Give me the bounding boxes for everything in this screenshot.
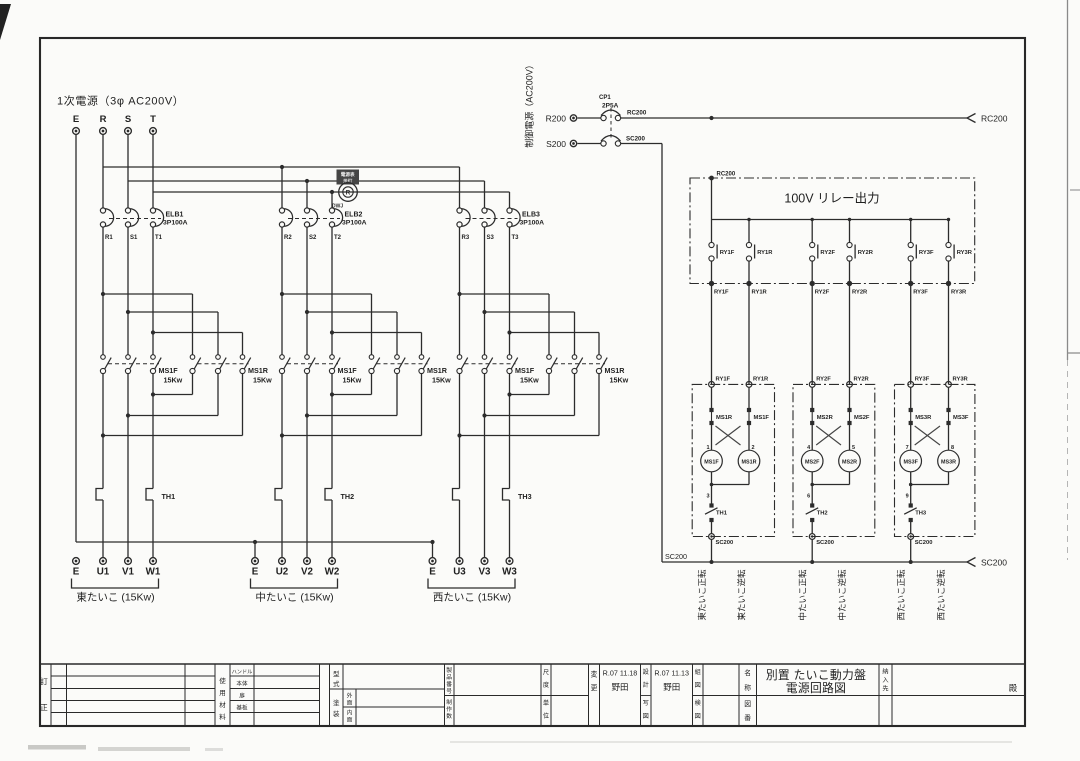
svg-text:S3: S3	[487, 235, 495, 241]
wire circuit1 U output	[102, 374, 104, 489]
svg-text:MS3R: MS3R	[941, 459, 956, 465]
bracket load group 3	[428, 579, 515, 589]
wire contact RY2R to box edge	[849, 261, 851, 283]
wire box1 coil MS1R return	[748, 472, 750, 485]
wire contact RY3F to box edge	[910, 261, 912, 283]
breaker ELB3 3P100A	[457, 208, 462, 213]
svg-text:料: 料	[219, 712, 226, 721]
wire ELB1 output x=103	[102, 227, 104, 355]
node circuit3 W junction	[507, 392, 511, 396]
wire circuit1 W output	[152, 374, 154, 489]
svg-text:MS1R: MS1R	[742, 459, 757, 465]
svg-text:変: 変	[591, 670, 598, 679]
wire ELB3 feed drop x=459.5	[459, 167, 461, 208]
node R bus tap ELB2	[280, 165, 284, 169]
node box terminal RY3R	[946, 281, 951, 286]
relay contact RY2F	[810, 242, 815, 247]
wire box3 left branch lower	[910, 472, 912, 504]
terminal E input	[73, 128, 80, 135]
wire drop to contact RY3F	[910, 220, 912, 243]
svg-text:扉: 扉	[239, 692, 245, 700]
svg-text:1次電源（3φ AC200V）: 1次電源（3φ AC200V）	[57, 94, 184, 108]
svg-text:T: T	[150, 114, 156, 125]
node RC200 relay feed tap	[709, 116, 713, 120]
svg-text:T3: T3	[512, 235, 520, 241]
svg-text:RY3F: RY3F	[919, 250, 934, 256]
svg-text:野田: 野田	[611, 682, 628, 692]
svg-text:野田: 野田	[663, 682, 680, 692]
svg-text:RY1R: RY1R	[757, 250, 773, 256]
wire circuit3 R to reverse pole1	[460, 293, 550, 295]
svg-text:SC200: SC200	[626, 136, 645, 143]
svg-text:SC200: SC200	[816, 540, 834, 546]
svg-text:RY2R: RY2R	[852, 290, 868, 296]
box1 terminal RY1F	[709, 382, 715, 388]
contactor MS1R contacts	[369, 355, 374, 360]
coil MS3F	[900, 450, 922, 472]
svg-text:TH3: TH3	[518, 492, 532, 501]
svg-text:E: E	[73, 567, 80, 578]
thermal contact TH1	[709, 503, 713, 507]
svg-text:計: 計	[643, 681, 649, 689]
svg-text:電源回路図: 電源回路図	[786, 681, 847, 695]
output terminal E	[429, 558, 436, 565]
svg-text:図: 図	[744, 700, 751, 708]
svg-text:MS1F: MS1F	[754, 415, 770, 421]
svg-text:基板: 基板	[236, 704, 248, 712]
node earth tap circuit3	[430, 540, 434, 544]
svg-text:E: E	[252, 567, 259, 578]
svg-text:使: 使	[219, 676, 226, 685]
node T bus tap ELB2	[330, 190, 334, 194]
svg-text:R: R	[100, 114, 107, 125]
wire RY3R to starter box	[948, 284, 950, 385]
node SC200 bus junction box2	[810, 560, 814, 564]
svg-text:SC200: SC200	[915, 540, 933, 546]
wire box3 coil MS3R return	[948, 472, 950, 485]
svg-text:用: 用	[219, 689, 226, 697]
svg-text:尺: 尺	[543, 670, 549, 677]
svg-text:TH3: TH3	[915, 511, 927, 517]
coil MS2R	[839, 450, 861, 472]
bracket load group 1	[72, 579, 159, 589]
wire relay feed header	[712, 219, 949, 221]
wire drop to contact RY1F	[711, 220, 713, 243]
contactor MS1F contacts	[457, 355, 462, 360]
svg-text:3P100A: 3P100A	[520, 220, 545, 227]
arrow RC200 out	[967, 114, 976, 123]
wire circuit3 V output	[484, 374, 486, 558]
svg-text:MS3F: MS3F	[904, 459, 919, 465]
svg-text:RY3R: RY3R	[951, 290, 967, 296]
svg-text:RY1R: RY1R	[753, 377, 769, 383]
output terminal V3	[481, 558, 488, 565]
wire box1 right branch upper	[748, 387, 750, 408]
box3 terminal RY3F	[908, 382, 914, 388]
wire RY2R to starter box	[849, 284, 851, 385]
wire box1 to SC200 terminal	[711, 522, 713, 534]
svg-text:15Kw: 15Kw	[610, 376, 629, 385]
mechanical interlock cross box3	[915, 426, 940, 445]
relay contact RY3R	[946, 242, 951, 247]
node circuit1 V junction	[126, 413, 130, 417]
coil MS2F	[801, 450, 823, 472]
svg-text:3P100A: 3P100A	[163, 220, 188, 227]
svg-text:R.07 11.13: R.07 11.13	[654, 669, 689, 678]
svg-text:S1: S1	[130, 235, 138, 241]
wire S-phase bus	[128, 180, 485, 182]
svg-text:材: 材	[219, 700, 226, 709]
terminal R200	[570, 115, 576, 121]
wire drop to contact RY2R	[849, 220, 851, 243]
thermal contact TH2	[810, 503, 814, 507]
svg-text:MS3R: MS3R	[915, 415, 932, 421]
mechanical interlock cross box1	[716, 426, 741, 445]
wire ELB2 feed drop x=307	[306, 181, 308, 208]
svg-text:ハンドル: ハンドル	[232, 670, 253, 676]
box2 terminal RY2R	[847, 382, 853, 388]
breaker ELB2 3P100A	[279, 208, 284, 213]
svg-text:R3: R3	[462, 235, 470, 241]
svg-text:RY1F: RY1F	[716, 377, 731, 383]
contactor MS1F contacts	[101, 355, 106, 360]
wire box1 left branch mid	[711, 423, 713, 450]
svg-text:R1: R1	[105, 235, 113, 241]
svg-text:TH1: TH1	[716, 511, 728, 517]
svg-text:U1: U1	[97, 567, 110, 578]
svg-text:納: 納	[882, 668, 888, 676]
arrow SC200 out	[967, 558, 976, 567]
svg-text:制: 制	[446, 698, 452, 706]
node circuit2 S tap	[305, 310, 309, 314]
svg-text:MS1F: MS1F	[338, 366, 358, 375]
wire ELB3 output x=509.5	[509, 227, 511, 355]
svg-text:15Kw: 15Kw	[520, 376, 539, 385]
svg-text:MS1F: MS1F	[515, 366, 535, 375]
svg-text:E: E	[73, 114, 79, 125]
svg-text:検: 検	[695, 699, 702, 707]
svg-text:MS1R: MS1R	[605, 366, 626, 375]
output terminal E	[73, 558, 80, 565]
svg-text:制御電源（AC200V）: 制御電源（AC200V）	[524, 60, 535, 148]
node circuit2 R tap	[280, 292, 284, 296]
node header tap RY3R	[947, 218, 950, 221]
node box terminal RY1R	[746, 281, 751, 286]
svg-text:RY3F: RY3F	[915, 377, 930, 383]
wire circuit3 reverse pole1 to W	[548, 374, 550, 395]
breaker CP1 2P5A pole R	[601, 115, 606, 120]
svg-text:面: 面	[347, 700, 353, 707]
svg-text:号: 号	[446, 688, 452, 695]
wire box2 right branch mid	[849, 423, 851, 450]
svg-text:RY2R: RY2R	[858, 250, 874, 256]
wire SC200 down feeder	[621, 143, 662, 145]
svg-text:図: 図	[695, 682, 701, 689]
wire circuit3 S to reverse pole2	[485, 311, 575, 313]
svg-text:外: 外	[347, 692, 353, 700]
node circuit2 T tap	[330, 330, 334, 334]
svg-text:RY2F: RY2F	[816, 377, 831, 383]
wire box2 coil MS2R return	[849, 472, 851, 485]
svg-text:2P5A: 2P5A	[602, 103, 619, 110]
svg-text:RY3F: RY3F	[913, 290, 928, 296]
svg-text:図: 図	[643, 713, 649, 720]
wire circuit1 R to reverse pole1	[103, 293, 193, 295]
wire circuit2 W output	[331, 374, 333, 489]
terminal S200	[570, 140, 576, 146]
box1 terminal SC200	[709, 534, 715, 540]
svg-text:中たいこ (15Kw): 中たいこ (15Kw)	[255, 591, 333, 604]
contactor MS1R contacts	[547, 355, 552, 360]
node header tap RY1R	[747, 218, 750, 221]
node box terminal RY3F	[908, 281, 913, 286]
svg-text:製: 製	[446, 666, 452, 674]
wire circuit2 reverse pole3 to U	[421, 374, 423, 436]
svg-text:100V リレー出力: 100V リレー出力	[784, 192, 879, 206]
svg-text:TH1: TH1	[162, 492, 176, 501]
svg-text:S: S	[125, 114, 131, 125]
box2 terminal RY2F	[809, 382, 815, 388]
wire RY3F to starter box	[910, 284, 912, 385]
svg-text:MS1R: MS1R	[248, 366, 269, 375]
wire RY1F to starter box	[711, 284, 713, 385]
svg-text:RY2R: RY2R	[854, 377, 870, 383]
svg-text:CP1: CP1	[599, 95, 611, 101]
svg-text:MS3F: MS3F	[953, 415, 969, 421]
svg-text:先: 先	[882, 685, 888, 693]
svg-text:SC200: SC200	[981, 558, 1007, 568]
wire ELB3 feed drop x=509.5	[509, 192, 511, 208]
svg-text:西たいこ (15Kw): 西たいこ (15Kw)	[433, 592, 511, 604]
wire contact RY3R to box edge	[948, 261, 950, 283]
wire circuit3 W output	[509, 374, 511, 489]
interlock contact MS1F	[747, 408, 751, 412]
output terminal U1	[100, 558, 107, 565]
svg-text:15Kw: 15Kw	[253, 376, 272, 385]
svg-text:面: 面	[347, 717, 353, 724]
svg-text:TH2: TH2	[341, 492, 355, 501]
svg-text:写: 写	[643, 700, 649, 707]
wire relay feed vertical	[711, 178, 713, 220]
node box2 coil junction	[810, 483, 814, 487]
node circuit1 S tap	[126, 310, 130, 314]
node circuit1 R tap	[101, 292, 105, 296]
svg-text:称: 称	[744, 683, 751, 692]
wire circuit1 reverse pole2 to V	[217, 374, 219, 416]
svg-text:式: 式	[333, 679, 340, 688]
node circuit1 U junction	[101, 433, 105, 437]
svg-text:型: 型	[333, 669, 340, 678]
wire box2 to SC200 terminal	[811, 522, 813, 534]
svg-text:ELB3: ELB3	[522, 212, 540, 219]
wire S200 to CP	[578, 143, 601, 145]
wire ELB3 feed drop x=484.5	[484, 181, 486, 208]
wire T vertical to ELB1	[152, 135, 154, 208]
wire drop to contact RY3R	[948, 220, 950, 243]
svg-text:9: 9	[906, 494, 909, 500]
svg-text:MS2F: MS2F	[805, 459, 820, 465]
terminal R input	[100, 128, 107, 135]
wire RY1R to starter box	[748, 284, 750, 385]
svg-text:V1: V1	[122, 567, 135, 578]
svg-text:MS1R: MS1R	[716, 415, 733, 421]
svg-text:度: 度	[543, 681, 549, 689]
box1 terminal RY1R	[746, 382, 752, 388]
wire drop to contact RY2F	[811, 220, 813, 243]
svg-text:15Kw: 15Kw	[432, 376, 451, 385]
svg-text:MS1R: MS1R	[427, 366, 448, 375]
svg-text:RC200: RC200	[981, 114, 1008, 124]
node circuit3 V junction	[482, 413, 486, 417]
wire R-phase bus	[103, 166, 460, 168]
wire circuit2 V output	[306, 374, 308, 558]
wire box2 left branch mid	[811, 423, 813, 450]
svg-text:RC200: RC200	[717, 172, 736, 178]
svg-text:中たいこ逆転: 中たいこ逆転	[837, 569, 847, 621]
svg-text:本体: 本体	[236, 680, 248, 688]
terminal T input	[150, 128, 157, 135]
output terminal U3	[456, 558, 463, 565]
svg-text:3P100A: 3P100A	[342, 220, 367, 227]
svg-text:品: 品	[446, 674, 452, 681]
svg-text:東たいこ (15Kw): 東たいこ (15Kw)	[76, 591, 154, 604]
svg-text:殿: 殿	[1009, 683, 1018, 693]
wire ELB2 feed drop x=332	[331, 192, 333, 208]
node circuit2 W junction	[330, 392, 334, 396]
interlock contact MS2F	[847, 408, 851, 412]
wire T-phase bus	[153, 191, 510, 193]
wire contact RY2F to box edge	[811, 261, 813, 283]
svg-text:名: 名	[744, 668, 751, 677]
box3 terminal RY3R	[946, 382, 952, 388]
svg-text:U2: U2	[276, 567, 289, 578]
interlock contact MS1R	[709, 408, 713, 412]
relay output box	[690, 178, 975, 284]
node S bus tap ELB2	[305, 179, 309, 183]
wire ELB1 output x=153	[152, 227, 154, 355]
wire R vertical to ELB1	[102, 135, 104, 208]
wire box3 to SC200 terminal	[910, 522, 912, 534]
wire circuit2 U output	[281, 374, 283, 489]
wire ELB2 output x=307	[306, 227, 308, 355]
wire earth drop circuit3	[432, 542, 434, 558]
wire box1 to SC200 bus	[711, 539, 713, 562]
wire box2 to SC200 bus	[811, 539, 813, 562]
svg-text:S2: S2	[309, 235, 317, 241]
output terminal V2	[304, 558, 311, 565]
svg-text:V2: V2	[301, 567, 314, 578]
contactor MS1F contacts	[280, 355, 285, 360]
svg-text:MS2F: MS2F	[854, 415, 870, 421]
svg-text:RY1R: RY1R	[752, 290, 768, 296]
svg-text:MS1F: MS1F	[704, 459, 719, 465]
wire box2 left branch upper	[811, 387, 813, 408]
node header tap RY3F	[909, 218, 912, 221]
svg-text:MS2R: MS2R	[842, 459, 857, 465]
wire R200 to CP	[578, 117, 601, 119]
svg-text:電源表: 電源表	[341, 171, 355, 178]
coil MS3R	[938, 450, 960, 472]
node circuit3 U junction	[457, 433, 461, 437]
wire circuit2 R to reverse pole1	[282, 293, 372, 295]
wire box3 right branch mid	[948, 423, 950, 450]
breaker ELB1 3P100A	[100, 208, 105, 213]
svg-text:東たいこ逆転: 東たいこ逆転	[737, 569, 747, 621]
scan artifact right paper edge	[1067, 0, 1069, 360]
svg-text:6: 6	[807, 494, 810, 500]
wire circuit1 V output	[127, 374, 129, 558]
svg-text:R2: R2	[284, 235, 292, 241]
svg-text:番: 番	[744, 714, 751, 722]
svg-text:R200: R200	[546, 114, 567, 124]
svg-text:位: 位	[543, 712, 549, 720]
wire E vertical feeder	[75, 135, 77, 543]
wire circuit2 T to reverse pole3	[332, 332, 422, 334]
svg-text:RY3R: RY3R	[957, 250, 973, 256]
thermal element circuit3 x=459.5	[453, 489, 460, 501]
node circuit1 W junction	[151, 392, 155, 396]
svg-text:正: 正	[40, 703, 48, 712]
node circuit3 T tap	[507, 330, 511, 334]
svg-text:中たいこ正転: 中たいこ正転	[798, 569, 808, 621]
node SC200 bus junction box1	[710, 560, 714, 564]
wire ELB1 output x=128	[127, 227, 129, 355]
interlock contact MS2R	[810, 408, 814, 412]
output terminal V1	[125, 558, 132, 565]
wire circuit1 reverse pole3 to U	[242, 374, 244, 436]
title block grid	[40, 663, 1025, 665]
wire earth drop circuit2	[254, 542, 256, 558]
svg-text:RY2F: RY2F	[820, 250, 835, 256]
wire box2 right branch upper	[849, 387, 851, 408]
svg-text:W3: W3	[502, 567, 517, 578]
svg-text:R.07 11.18: R.07 11.18	[603, 669, 638, 678]
bracket load group 2	[251, 579, 338, 589]
wire RY2F to starter box	[811, 284, 813, 385]
svg-text:数: 数	[446, 712, 452, 720]
node earth tap circuit2	[253, 540, 257, 544]
svg-text:S200: S200	[546, 139, 566, 149]
node circuit1 T tap	[151, 330, 155, 334]
node box1 coil junction	[710, 483, 714, 487]
thermal element circuit2 x=332	[325, 489, 332, 501]
svg-text:MS1F: MS1F	[159, 366, 179, 375]
wire RC200 line	[621, 117, 967, 119]
wire circuit3 U output	[459, 374, 461, 489]
node box terminal RY2F	[810, 281, 815, 286]
starter box 2	[793, 384, 875, 536]
node box terminal RY1F	[709, 281, 714, 286]
relay contact RY3F	[908, 242, 913, 247]
wire ELB3 output x=484.5	[484, 227, 486, 355]
wire box1 right branch mid	[748, 423, 750, 450]
relay contact RY1F	[709, 242, 714, 247]
output terminal U2	[279, 558, 286, 565]
wire S vertical to ELB1	[127, 135, 129, 208]
svg-text:RY1F: RY1F	[714, 290, 729, 296]
wire box1 left branch upper	[711, 387, 713, 408]
scan artifact bottom shadow	[28, 745, 86, 750]
wire circuit2 S to reverse pole2	[307, 311, 397, 313]
svg-text:U3: U3	[453, 567, 466, 578]
relay contact RY2R	[847, 242, 852, 247]
wire circuit3 reverse pole2 to V	[574, 374, 576, 416]
wire box1 left branch lower	[711, 472, 713, 504]
output terminal W2	[329, 558, 336, 565]
svg-text:ELB2: ELB2	[345, 212, 363, 219]
pilot lamp RL	[339, 183, 358, 202]
svg-text:T2: T2	[334, 235, 342, 241]
